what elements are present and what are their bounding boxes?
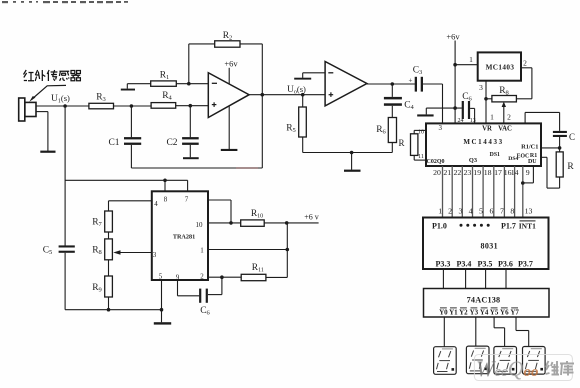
svg-text:4: 4: [469, 207, 473, 216]
wire DU pin 9: [532, 166, 534, 183]
svg-text:1: 1: [469, 55, 473, 64]
svg-text:Uo(s): Uo(s): [287, 84, 306, 96]
svg-text:MC1403: MC1403: [486, 63, 515, 71]
node EOC/DU junction: [521, 181, 525, 185]
node U1 junction: [63, 104, 67, 108]
svg-text:2: 2: [523, 59, 527, 68]
wire pin 7 stub: [187, 180, 189, 191]
svg-text:Y3: Y3: [470, 309, 479, 317]
wire R1 to op-amp minus input: [176, 83, 208, 85]
capacitor C5: [59, 245, 75, 247]
resistor R5: [302, 95, 304, 107]
resistor R1: [151, 81, 177, 86]
svg-text:10: 10: [418, 128, 424, 135]
op-amp U1: [208, 73, 249, 118]
svg-text:Y2: Y2: [459, 309, 468, 317]
potentiometer R8: [492, 96, 517, 102]
wire top rail to pins 8,7: [65, 179, 188, 181]
infrared sensor (transducer): [19, 98, 25, 121]
wire pin 9 to C6: [177, 280, 179, 296]
ADC MC14433: [426, 123, 541, 166]
svg-text:18: 18: [484, 168, 492, 177]
capacitor C (clock): [553, 131, 567, 133]
svg-text:R: R: [398, 138, 404, 148]
svg-text:P3.7: P3.7: [518, 260, 533, 269]
svg-text:INT1: INT1: [519, 222, 536, 231]
svg-text:Y7: Y7: [510, 309, 519, 317]
node R5 branch: [301, 93, 305, 97]
MCU 8031: [423, 218, 549, 270]
svg-text:+6v: +6v: [446, 32, 460, 42]
svg-text:P3.5: P3.5: [478, 260, 493, 269]
resistor R11: [241, 274, 266, 280]
ground bar mid rail: [351, 153, 353, 170]
resistor R3: [89, 103, 114, 109]
cropped text fragment at top edge: [2, 1, 128, 3]
ground bar under sensor: [40, 151, 55, 153]
wire R1/C1 pin to RC node: [541, 147, 560, 149]
wire EOC to INT1: [522, 166, 524, 218]
display DS4: [523, 347, 546, 375]
svg-text:1: 1: [438, 207, 442, 216]
wire MC1403 pin 3 to VR: [485, 81, 487, 124]
wires P3.3-P3.6 to decoder: [442, 269, 444, 289]
resistor R2: [215, 41, 240, 47]
ground bar TRA281: [154, 322, 171, 324]
svg-text:TRA281: TRA281: [173, 234, 195, 241]
wiper arrow to VAC: [503, 104, 505, 123]
node pin1 junction: [286, 248, 290, 252]
wire bottom rail: [65, 309, 161, 311]
wire U1 output to U2 plus input: [249, 94, 325, 96]
svg-text:P1.7: P1.7: [501, 222, 516, 231]
wire +6v vertical: [454, 41, 456, 124]
svg-text:20: 20: [433, 168, 441, 177]
wire R5 bottom rail: [303, 152, 393, 154]
capacitor C4: [384, 97, 402, 100]
svg-text:VR: VR: [482, 125, 492, 132]
wire sensor output: [36, 105, 89, 107]
resistor R9: [105, 276, 113, 297]
wire U1 node down to TRA281 supply rail: [64, 106, 66, 246]
svg-text:74AC138: 74AC138: [467, 295, 501, 304]
capacitor C3 (polarized): [415, 77, 417, 92]
wire bypass rail: [426, 107, 462, 109]
svg-text:Q3: Q3: [469, 157, 477, 164]
ground stub of U1: [228, 106, 230, 149]
svg-text:Y4: Y4: [480, 309, 489, 317]
svg-text:P3.6: P3.6: [498, 260, 513, 269]
svg-text:2: 2: [507, 113, 511, 122]
svg-text:+: +: [409, 77, 413, 85]
wire up to R2: [188, 44, 190, 84]
svg-text:19: 19: [473, 168, 481, 177]
wire R10 to +6v: [264, 222, 318, 224]
clock resistor R (pins 10-11): [414, 129, 426, 131]
potentiometer R8 (divider): [105, 239, 113, 260]
svg-text:7: 7: [500, 207, 504, 216]
svg-text:22: 22: [454, 168, 462, 177]
wire pin 5 to ground: [161, 280, 163, 322]
svg-text:3: 3: [479, 83, 483, 92]
node MC1403 pin1 junction: [453, 63, 457, 67]
resistor R4: [151, 103, 176, 109]
decoder 74AC138: [424, 289, 550, 318]
node pin 8 junction: [163, 179, 167, 183]
bus wires MC14433 to 8031: [442, 166, 444, 218]
svg-text:P3.4: P3.4: [456, 260, 471, 269]
node pin2 junction: [220, 275, 224, 279]
display DS3: [494, 347, 517, 375]
svg-text:3: 3: [459, 207, 463, 216]
label: hong-wai-chuan-gan-qi (infrared sensor), drawn glyphs: [24, 70, 81, 81]
svg-text:8031: 8031: [480, 242, 498, 251]
wire U2 output: [367, 83, 415, 85]
capacitor C6 (top): [462, 101, 464, 119]
svg-text:DU: DU: [528, 159, 537, 165]
svg-text:7: 7: [185, 196, 189, 204]
resistor R (clock): [559, 148, 561, 152]
node C1 junction: [130, 104, 134, 108]
svg-text:1: 1: [200, 247, 204, 255]
node feedback/output: [261, 93, 265, 97]
node R10 left junction: [229, 221, 233, 225]
svg-text:3: 3: [439, 124, 443, 132]
svg-text:21: 21: [443, 168, 451, 177]
svg-text:2: 2: [200, 273, 204, 281]
node rail ground junction: [350, 151, 354, 155]
resistor R7: [105, 211, 113, 232]
capacitor C2: [189, 106, 191, 137]
svg-text:11: 11: [418, 153, 424, 160]
wire R4 to op-amp plus input: [176, 105, 209, 107]
svg-text:Y6: Y6: [500, 309, 509, 317]
svg-text:C02Q0: C02Q0: [427, 159, 445, 165]
ground bar near pin3 rail: [417, 114, 433, 116]
ground bar at R1 left: [121, 89, 135, 91]
resistor R10: [241, 220, 265, 226]
svg-text:R1/C1: R1/C1: [521, 143, 538, 150]
leader arrow to sensor: [32, 85, 67, 99]
wire C1 bottom to feedback rail: [130, 145, 132, 168]
wire pin 10: [208, 222, 241, 224]
wire R3 to C1 node: [114, 105, 152, 107]
display DS2: [466, 346, 489, 374]
wire R2 to output node: [240, 43, 262, 45]
svg-text:4: 4: [154, 200, 158, 208]
svg-text:VAC: VAC: [498, 125, 512, 132]
svg-text:17: 17: [494, 168, 502, 177]
node C2 junction: [189, 104, 193, 108]
svg-text:6: 6: [489, 207, 493, 216]
node R9 bottom: [107, 308, 111, 312]
voltage reference MC1403: [478, 52, 521, 80]
capacitor C1: [130, 106, 132, 137]
svg-text:MC14433: MC14433: [463, 138, 503, 146]
resistor R6: [391, 143, 393, 153]
svg-text:10: 10: [196, 221, 204, 229]
svg-text:23: 23: [464, 168, 472, 177]
wire pin 4 to R7: [109, 200, 152, 202]
display DS1: [434, 347, 457, 375]
svg-text:2: 2: [448, 207, 452, 216]
wire Y0 to display 1: [443, 317, 445, 347]
svg-text:5: 5: [159, 273, 163, 281]
wire pin 1: [208, 249, 287, 251]
C2 ground stub and bar: [189, 145, 191, 157]
capacitor C6: [199, 289, 201, 303]
node pin5/ground junction: [160, 308, 164, 312]
wire C3 to MC14433 VX pin 3: [423, 83, 443, 85]
wiper arrow from pin 3: [120, 252, 152, 254]
svg-text:1: 1: [490, 113, 494, 122]
svg-text:8: 8: [164, 196, 168, 204]
wire MC1403 pin 1: [455, 64, 478, 66]
node C4 branch: [391, 82, 395, 86]
svg-text:P3.3: P3.3: [435, 260, 450, 269]
wire sensor to ground: [36, 111, 48, 113]
ground bar at U2 minus: [294, 78, 311, 80]
svg-text:+6v: +6v: [224, 59, 238, 69]
node R10/R11 junction: [285, 221, 289, 225]
svg-text:Y5: Y5: [490, 309, 499, 317]
amplifier TRA281: [152, 191, 208, 280]
op-amp U2: [325, 62, 367, 106]
svg-text:3: 3: [153, 251, 157, 259]
node feedback junction: [187, 82, 191, 86]
wire MC1403 pin 2 to R8 right: [521, 67, 532, 69]
wire U2 minus input to bar: [303, 72, 325, 74]
node bypass rail junction: [453, 106, 457, 110]
svg-text:Y1: Y1: [449, 309, 458, 317]
svg-text:8: 8: [510, 207, 514, 216]
svg-text:R: R: [567, 162, 574, 172]
svg-text:9: 9: [526, 168, 530, 177]
svg-text:C: C: [569, 132, 575, 142]
wire Y5 to display 3: [493, 317, 495, 328]
svg-text:Y0: Y0: [439, 309, 448, 317]
dots P1.x: [460, 224, 463, 227]
svg-text:C1: C1: [108, 138, 119, 148]
wire Y3 to display 2: [475, 317, 477, 346]
svg-text:C2: C2: [166, 138, 177, 148]
svg-text:DS1: DS1: [490, 152, 500, 158]
svg-text:14: 14: [511, 168, 519, 177]
svg-text:5: 5: [479, 207, 483, 216]
svg-text:U1(s): U1(s): [51, 93, 70, 105]
watermark WeeQoo: [474, 355, 574, 382]
svg-text:P1.0: P1.0: [432, 222, 447, 231]
svg-text:13: 13: [525, 207, 533, 216]
wire top-right pin to R10 node: [208, 199, 231, 201]
node pin3/R8 junction: [484, 97, 488, 101]
wire pin 2 to R11: [208, 276, 241, 278]
wire Y7 to display 4: [515, 317, 517, 331]
svg-text:+6 v: +6 v: [304, 213, 319, 222]
wire bar to R1: [126, 84, 128, 89]
